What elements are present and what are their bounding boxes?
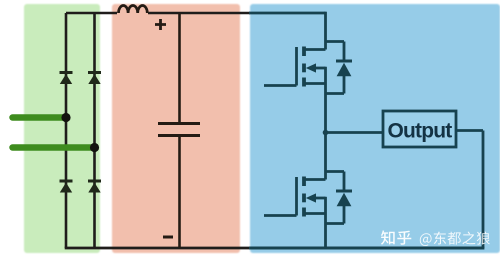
wire: bottom negative rail	[65, 247, 250, 250]
wire: bridge left vertical	[65, 13, 68, 248]
inductor L1	[119, 5, 148, 13]
capacitor C1	[158, 13, 200, 248]
AC stage background panel (green)	[24, 4, 100, 253]
node: junction dot AC bottom / right leg	[90, 143, 99, 152]
wire: Q2 source to bottom rail	[324, 197, 327, 248]
diode D5 (Q1 body diode)	[326, 42, 353, 94]
label: plus sign	[155, 19, 166, 30]
wire: AC input line bottom (green)	[13, 144, 95, 151]
inverter stage background panel (blue)	[250, 4, 500, 253]
watermark: 知乎 @东都之狼	[381, 230, 490, 246]
diode D1 (bridge top-left)	[60, 73, 73, 85]
wire: bottom rail in inverter region	[249, 247, 484, 250]
node: junction dot AC top / left leg	[61, 113, 70, 122]
transistor Q1 (high-side MOSFET)	[264, 47, 326, 87]
svg-text:Output: Output	[387, 119, 452, 142]
label: minus sign	[163, 236, 173, 239]
wire: midpoint to output box	[326, 131, 384, 134]
wire: top positive rail	[66, 12, 250, 15]
node: midpoint junction	[323, 130, 329, 136]
diode D2 (bridge top-right)	[88, 73, 101, 85]
wire: right rail down to bottom	[482, 131, 485, 249]
wire: Q1 drain to top rail	[324, 12, 327, 50]
wire: output box to right rail	[456, 129, 483, 132]
diode D3 (bridge bottom-left)	[60, 181, 73, 193]
diode D4 (bridge bottom-right)	[88, 181, 101, 193]
wire: top rail in inverter region	[249, 12, 326, 15]
Output box	[383, 111, 456, 147]
wire: bridge right vertical	[93, 13, 96, 248]
diode D6 (Q2 body diode)	[326, 172, 353, 224]
wire: Q1 source / midpoint vertical	[324, 67, 327, 180]
wire: AC input line top (green)	[13, 114, 67, 121]
transistor Q2 (low-side MOSFET)	[264, 177, 326, 217]
filter stage background panel (pink)	[112, 4, 240, 253]
